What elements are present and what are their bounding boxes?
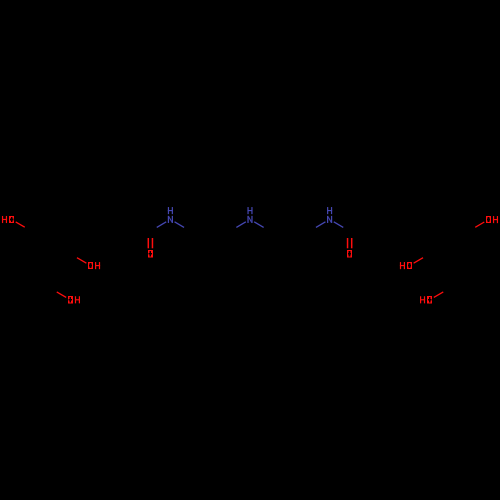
label N H (N2, central amine nitrogen) (247, 207, 252, 223)
bond O8-ring (phenol stub, right top) (475, 222, 484, 227)
label O (O4, left carbonyl oxygen) (148, 250, 153, 257)
bond O1-ring (phenol stub, left top) (16, 222, 25, 227)
label HO (O7, right bottom hydroxymethyl) (420, 296, 432, 303)
double bond C=O5 (right carbonyl) (347, 238, 349, 248)
label OH (O3, left bottom hydroxymethyl) (68, 296, 80, 303)
bond O3-CH2 (hydroxymethyl stub, left bottom) (57, 292, 66, 297)
label N H (N3, right amide nitrogen) (327, 207, 332, 223)
label O (O5, right carbonyl oxygen) (347, 250, 352, 257)
bond N1-C(=O) (amide, left) (157, 222, 167, 228)
bond O7-CH2 (hydroxymethyl stub, right bottom) (434, 292, 443, 297)
label HO (O6, right mid phenol) (400, 262, 412, 269)
double bond C=O4 (left carbonyl) (147, 238, 149, 248)
label OH (O2, left mid phenol) (88, 262, 100, 269)
bond N3-CH2 (316, 222, 326, 228)
bond O2-ring (phenol stub, left mid) (77, 258, 86, 263)
label N H (N1, left amide nitrogen) (168, 207, 173, 223)
bond N1-CH2 (175, 222, 185, 228)
background black rect (16, 222, 485, 298)
label OH (O8, right top phenol) (486, 216, 498, 223)
bond O6-ring (phenol stub, right mid) (414, 258, 423, 263)
label HO (O1, left top phenol) (2, 216, 14, 223)
bond N3-C(=O) (amide, right) (334, 222, 344, 228)
bond N2-CH2 (central amine, right side) (254, 222, 264, 228)
bond N2-CH2 (central amine, left side) (236, 222, 246, 228)
